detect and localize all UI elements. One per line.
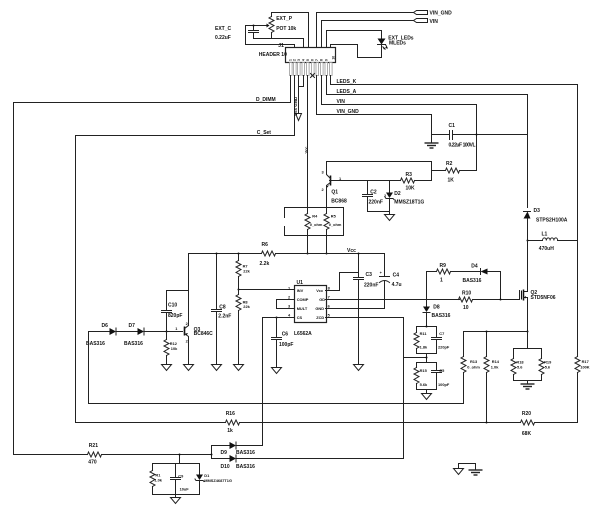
svg-text:C7: C7 [439,331,444,336]
svg-text:1K: 1K [448,178,455,184]
svg-text:C5: C5 [439,368,445,373]
junction C6 tap [276,317,278,319]
svg-text:10k: 10k [171,346,178,351]
svg-text:9: 9 [324,59,328,61]
LED EXT_LEDs [327,31,414,58]
svg-text:470uH: 470uH [539,246,554,252]
junction R14 top [486,331,488,333]
junction R14 bottom [486,422,488,424]
ground under R8 [234,365,244,371]
resistor R11 with capacitor C7 parallel [414,327,450,354]
MOSFET Q2 STD5NF06 [520,241,556,332]
svg-text:220nF: 220nF [369,199,383,205]
svg-text:68K: 68K [522,431,532,437]
resistor R14 1.0k [484,332,500,423]
wire pot wiper / cap top to header pin2 [246,26,295,48]
svg-text:C4: C4 [393,273,400,279]
wire LEDS_A (pin9 right to D3 column) [327,76,528,208]
svg-text:5.6: 5.6 [517,364,523,369]
wire D4 anode down to gate [500,272,502,300]
svg-text:1: 1 [440,278,443,284]
connector tab VIN_GND [317,11,453,48]
resistor R21 470 [88,443,212,465]
wire long net y404 [89,403,464,405]
wire LEDS_K (pin10 right and down right edge) [331,76,578,349]
junction INV / R7 / R8 [238,289,240,291]
diode D3 STPS2H100A [524,208,568,241]
wire C2/D2 bottoms tie [368,211,390,213]
svg-text:R10: R10 [462,290,471,296]
capacitor C2 [363,181,383,212]
svg-text:1k: 1k [227,428,233,434]
svg-text:ZCD: ZCD [316,315,324,320]
svg-text:2.2k: 2.2k [260,261,270,267]
wire ZCD pin5 right and down [237,318,404,459]
wire C_Set line continued to R20/R17 [240,422,521,424]
svg-text:MMSZ18T1G: MMSZ18T1G [394,199,424,205]
ground flag Vss GND (pins 3,4) [293,76,304,121]
svg-text:STPS2H100A: STPS2H100A [536,217,568,223]
svg-text:BAS316: BAS316 [236,464,255,470]
svg-text:2.2nF: 2.2nF [218,314,231,320]
svg-text:LEDS_K: LEDS_K [337,79,357,85]
svg-text:R4: R4 [312,213,318,218]
capacitor C6 [272,318,294,368]
svg-text:R2: R2 [446,161,453,167]
wire GND pin6 to C4 [326,308,385,310]
svg-text:D8: D8 [433,305,440,311]
ground under C3 [354,365,364,371]
junction gate node [500,299,502,301]
diode D4 BAS316 [463,263,501,284]
svg-text:0.22uF 100VL: 0.22uF 100VL [449,142,476,148]
svg-text:POT 10k: POT 10k [276,26,296,32]
capacitor C4 electrolytic [380,254,402,308]
ground under C8 [212,365,222,371]
capacitor C9 10uF [171,464,190,495]
junction C8 on rail [216,253,218,255]
svg-text:VIN: VIN [337,99,346,105]
svg-text:MLEDs: MLEDs [389,40,406,46]
svg-text:L1: L1 [542,232,548,238]
svg-text:1.0k: 1.0k [491,364,499,369]
resistor R13 0_ohm [461,332,480,404]
wire pot bottom / cap bottom to header pin4 [254,33,304,48]
header J1 HEADER 10 [259,43,336,76]
svg-text:D6: D6 [102,323,109,329]
svg-text:Vcc: Vcc [316,288,324,293]
ground under clamp box [171,495,181,504]
svg-text:D_DIMM: D_DIMM [256,97,276,103]
svg-text:L6562A: L6562A [294,331,312,337]
ground tie pair [454,464,483,476]
svg-text:LEDS_A: LEDS_A [337,89,357,95]
wire INV net [239,289,295,291]
svg-text:BAS316: BAS316 [124,341,143,347]
wire supply rail [189,253,385,255]
resistor R12 [164,332,178,365]
svg-text:C8: C8 [219,305,226,311]
junction base node C10/R12 [166,331,168,333]
zener diode D1 MMSZ4687T1G [195,464,232,495]
svg-text:C1: C1 [449,123,456,129]
inductor L1 470uH [528,232,578,252]
svg-text:D7: D7 [129,323,136,329]
junction R4 bottom on rail [307,253,309,255]
svg-text:CS: CS [297,315,303,320]
wire Vcc pin8 jog [326,273,359,291]
svg-text:COMP: COMP [297,297,309,302]
svg-text:HEADER 10: HEADER 10 [259,52,287,58]
svg-text:C2: C2 [370,190,377,196]
svg-text:220pF: 220pF [438,345,450,350]
svg-text:C3: C3 [366,272,373,278]
wire Q1 base line [330,180,401,182]
svg-text:Vcc: Vcc [303,146,308,154]
diode D9 BAS316 [212,442,263,456]
svg-text:R16: R16 [226,411,235,417]
svg-text:C6: C6 [282,331,289,337]
ground under R15C5 [422,390,432,400]
svg-text:5.6k: 5.6k [420,382,428,387]
junction C3 on rail [358,253,360,255]
resistor R2 [432,161,477,184]
ground under R12 [162,365,172,371]
earth ground under sense loop [521,381,535,390]
svg-text:10uF: 10uF [180,486,190,491]
svg-text:10K: 10K [406,186,416,192]
junction Q2 source node [527,331,529,333]
svg-text:R20: R20 [522,411,531,417]
svg-text:4.7u: 4.7u [392,282,402,288]
svg-text:1.0k: 1.0k [154,478,162,483]
svg-text:BC846C: BC846C [194,331,214,337]
svg-text:0_ohm: 0_ohm [467,364,480,369]
diode D7 BAS316 [124,323,144,347]
wire Q1 emitter to R2 column [327,162,432,181]
resistor R10 [459,290,520,311]
wire diode bracket [211,446,213,459]
svg-text:0_ohm: 0_ohm [329,222,342,227]
transistor Q3 BC846C [175,321,213,365]
connector tab VIN [322,19,439,48]
svg-text:5: 5 [306,59,310,61]
svg-text:R9: R9 [440,263,447,269]
capacitor C3 [354,254,379,365]
svg-text:GD: GD [319,297,325,302]
option box around R4 R5 [285,208,344,236]
svg-text:22k: 22k [243,304,250,309]
svg-text:MMSZ4687T1G: MMSZ4687T1G [204,478,232,483]
junction L1 left [527,240,529,242]
svg-text:1.8k: 1.8k [420,345,428,350]
svg-text:BAS316: BAS316 [432,313,451,319]
capacitor C10 [162,291,189,332]
wire pot top to header pin5 [272,13,309,48]
svg-text:10: 10 [463,305,469,311]
svg-text:100K: 100K [580,364,589,369]
junction R11C7 top [426,326,428,328]
junction cap top [253,25,255,27]
capacitor EXT_C [215,26,259,42]
svg-text:VIN_GND: VIN_GND [430,11,453,17]
resistor R17 100K (in LEDS_K column) [575,349,590,423]
svg-text:R15: R15 [420,368,428,373]
svg-text:J1: J1 [278,43,284,49]
wire mid node to ZCD column [404,354,427,363]
svg-text:C_Set: C_Set [257,130,272,136]
diode D6 BAS316 [86,323,116,347]
svg-text:820pF: 820pF [168,313,182,319]
zener diode D2 MMSZ18T1G [384,181,424,212]
resistor R15 with capacitor C5 parallel [414,363,450,390]
wire C_Set net (pin2 down-left) [76,76,295,423]
svg-text:EXT_C: EXT_C [215,26,232,32]
wire VIN (pin8 right to C1/R2 column) [322,76,477,171]
wire D_DIMM net (pin1 to R21) [14,76,291,455]
svg-text:Q1: Q1 [331,189,338,195]
capacitor C8 [212,254,232,365]
ground under C6 [272,368,282,374]
wire VIN_GND (pin7 right to C1 left) [317,76,432,135]
svg-text:BAS316: BAS316 [236,450,255,456]
svg-text:10: 10 [332,56,336,60]
svg-text:R3: R3 [406,172,413,178]
resistor R4 0_ohm [305,208,323,254]
svg-text:D4: D4 [471,263,478,269]
svg-text:0_ohm: 0_ohm [310,222,323,227]
wire rail drop to Q3 collector [188,254,190,326]
svg-text:Vcc: Vcc [347,248,356,254]
resistor R3 [401,172,432,192]
IC U1 L6562A [288,280,331,337]
svg-text:D10: D10 [221,464,230,470]
current sense loop R18 R19 [511,332,552,381]
svg-text:22k: 22k [243,268,250,273]
svg-text:BC868: BC868 [331,199,347,205]
transistor Q1 BC868 [322,162,347,205]
svg-text:6: 6 [311,59,315,61]
earth ground at C1 [425,135,439,149]
svg-text:Vss GND: Vss GND [293,96,298,116]
clamp network box wires [153,464,200,495]
svg-text:470: 470 [88,459,97,465]
no-connect X on pin 6 [311,74,315,78]
svg-text:C9: C9 [178,473,184,478]
resistor R6 [260,242,276,267]
svg-text:C10: C10 [168,302,177,308]
svg-text:EXT_P: EXT_P [276,16,293,22]
potentiometer EXT_P [260,16,297,33]
wire CS net left [263,318,295,446]
wire GD pin7 to gate network [326,299,460,301]
svg-text:D9: D9 [221,450,228,456]
diode D10 BAS316 [212,455,256,470]
svg-text:7: 7 [315,59,319,61]
ground under D2 [385,212,395,221]
resistor R1 1.0k [150,464,163,495]
svg-text:D2: D2 [394,191,401,197]
resistor R16 1k (in C_Set line) [226,411,240,434]
wire Vcc net (pin5 down to R4) [307,76,309,208]
resistor R5 0_ohm [324,190,342,254]
svg-text:100pF: 100pF [438,382,450,387]
resistor R7 [236,254,251,290]
svg-text:0.22uF: 0.22uF [215,35,231,41]
svg-text:U1: U1 [297,280,304,286]
wire R13/R14 top rail [464,331,528,333]
junction R7 on rail [238,253,240,255]
wire D6 anode from long net [88,332,90,404]
svg-text:5.6: 5.6 [545,364,551,369]
wire Q3 base line from diodes [89,331,183,333]
wire COMP-MULT loop [277,300,295,309]
svg-text:VIN_GND: VIN_GND [337,109,360,115]
wire drop to clamp box [179,455,181,464]
svg-text:BAS316: BAS316 [463,278,482,284]
svg-text:100pF: 100pF [279,342,293,348]
svg-text:7: 7 [328,294,330,299]
svg-text:R11: R11 [420,331,428,336]
resistor R8 [236,290,251,365]
svg-text:4: 4 [301,59,305,61]
svg-text:R5: R5 [331,213,337,218]
svg-text:220nF: 220nF [364,283,378,289]
svg-text:R6: R6 [262,242,269,248]
svg-text:MULT: MULT [297,306,308,311]
svg-text:INV: INV [297,288,304,293]
svg-text:VIN: VIN [430,19,439,25]
svg-text:STD5NF06: STD5NF06 [531,295,556,301]
resistor R9 [427,263,481,284]
svg-text:R21: R21 [89,443,98,449]
svg-text:3: 3 [297,59,301,61]
wire R9 branch vertical [426,272,428,307]
svg-text:D3: D3 [534,208,541,214]
resistor R20 68K [521,411,578,437]
capacitor C1 [432,123,528,148]
junction R5 bottom on rail [326,253,328,255]
svg-text:8: 8 [320,59,324,61]
svg-text:GND: GND [315,306,324,311]
diode D8 BAS316 [423,305,451,327]
ground under Q3 [184,365,194,371]
